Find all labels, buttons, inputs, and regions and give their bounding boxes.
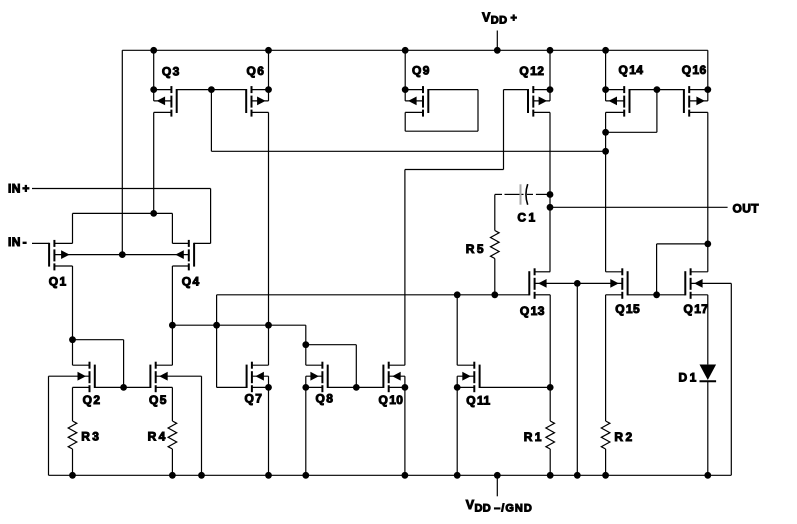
Q10 source lead (389, 386, 405, 388)
wire: Q5 drain riser (171, 325, 173, 365)
wire: Q2 diode tie horizontal (73, 339, 124, 341)
wire: Q12 drain drop from rail (549, 50, 551, 89)
node (405.2,89.6) (402, 86, 409, 93)
Q4 channel (188, 240, 190, 247)
Q14 gate bar (629, 89, 631, 113)
wire: IN+ drop to Q4 gate (210, 189, 212, 244)
Q15 source lead (606, 294, 623, 296)
wire: Q17 source drop to D1 (707, 295, 709, 365)
Q16 gate bar (683, 89, 685, 113)
node (268.5,387.4) (265, 384, 272, 391)
Q11 gate bar (479, 365, 481, 388)
Q2 gate lead (95, 386, 124, 388)
node (494.8,294.8) (491, 291, 498, 298)
Q12 gate bar (527, 89, 529, 113)
Q15 channel (621, 268, 623, 275)
Q6 gate bar (245, 89, 247, 113)
svg-text:Q7: Q7 (245, 391, 263, 405)
Q4 drain lead (172, 242, 188, 244)
Q1 drain lead (54, 242, 72, 244)
Q16 source lead (689, 111, 708, 113)
Q17 drain lead (691, 271, 708, 273)
Q16 channel (688, 86, 690, 93)
Q11 channel (473, 362, 475, 369)
node (457.2,294.8) (454, 291, 461, 298)
C1 plate-to-arc stub (522, 193, 524, 195)
node (305.8,387.4) (302, 384, 309, 391)
node (172.4,475.3) (169, 472, 176, 479)
transistor Q6 (P-channel MOSFET) (211, 86, 268, 117)
svg-text:Q4: Q4 (182, 275, 200, 289)
node (656.6,294.8) (653, 291, 660, 298)
transistor Q11 (N-channel MOSFET) (457, 362, 550, 393)
Q11 bulk lead (457, 375, 474, 377)
transistor Q4 (P-channel MOSFET) (172, 240, 210, 271)
wire: Q11 drain riser (456, 295, 458, 365)
Q9 substrate arrow (408, 97, 417, 106)
wire: Q12 gate drop (503, 90, 505, 170)
Q17 bulk lead (691, 282, 732, 284)
svg-text:Q17: Q17 (684, 302, 709, 316)
wire: Q15 source drop to R2 (605, 295, 607, 421)
node (268.5,325.2) (265, 322, 272, 329)
Q9 gate bar (427, 89, 429, 113)
wire: Q17 diode tie horizontal (657, 243, 708, 245)
node (707.8,475.3) (704, 472, 711, 479)
Q2 drain lead (73, 364, 90, 366)
Q1 source lead (54, 265, 72, 267)
Q10 bulk lead (389, 375, 405, 377)
wire: Q11 source to ground rail (456, 387, 458, 475)
Q9 channel (422, 86, 424, 93)
Q6 channel (251, 86, 253, 93)
wire: Q3 drain drop from rail (153, 50, 155, 89)
svg-text:R5: R5 (466, 242, 484, 256)
svg-text:R2: R2 (614, 430, 632, 444)
wire: Q13/Q15 shared bulk line (535, 282, 623, 284)
Q8 drain lead (306, 364, 323, 366)
wire: R2 bottom lead (605, 449, 607, 475)
Q1 gate lead (32, 242, 49, 244)
wire: Q7 source to ground rail (268, 387, 270, 475)
Q12 bulk lead + stub (533, 100, 550, 102)
svg-text:Q9: Q9 (412, 64, 430, 78)
wire: Q1 source drop (72, 266, 74, 340)
transistor Q9 (P-channel MOSFET) (405, 86, 478, 117)
node (497.3,475.3) (494, 472, 501, 479)
Q15 substrate arrow (610, 279, 619, 288)
node (123.6,387.4) (120, 384, 127, 391)
svg-text:Q14: Q14 (619, 63, 644, 77)
wire: VDD+ top rail (122, 49, 708, 51)
wire: Q14 source drop to Q15 drain (605, 112, 607, 271)
Q12 substrate arrow (539, 97, 548, 106)
wire: Q8 diode tie drop (355, 345, 357, 388)
wire: rail right end drop to Q16 (707, 50, 709, 89)
svg-text:Q3: Q3 (162, 64, 180, 78)
svg-text:R1: R1 (524, 430, 542, 444)
capacitor C1 (521, 184, 528, 205)
wire: Q7 gate drop (216, 325, 218, 387)
Q14 gate lead (630, 89, 657, 91)
Q10 gate lead (356, 386, 383, 388)
Q3 bulk lead + stub (154, 100, 172, 102)
Q4 substrate arrow (175, 250, 184, 259)
Q4 gate lead (194, 242, 211, 244)
wire: Q4 source drop (171, 266, 173, 325)
Q16 gate lead (657, 89, 684, 91)
Q1 substrate arrow (61, 250, 70, 259)
svg-text:Q1: Q1 (49, 275, 67, 289)
node (172.4,325.2) (169, 322, 176, 329)
node (201.5,475.3) (198, 472, 205, 479)
Q8 channel (321, 362, 323, 369)
wire: R5 bottom lead (494, 259, 496, 295)
transistor Q5 (N-channel MOSFET) (124, 362, 202, 393)
Q2 channel (89, 362, 91, 369)
wire: Q10 source to ground rail (404, 387, 406, 475)
Q13 source lead (535, 294, 551, 296)
Q14 drain lead (606, 89, 625, 91)
C1 flat plate (gray) (520, 184, 522, 204)
Q8 bulk lead (306, 375, 323, 377)
wire: Q12 source drop to Q13 drain (549, 112, 551, 271)
wire: C1 left lead (segment 2) (505, 193, 520, 195)
transistor Q12 (P-channel MOSFET) (504, 86, 551, 117)
Q17 gate lead (657, 294, 686, 296)
Q13 gate bar (528, 271, 530, 295)
Q14 source lead (606, 111, 625, 113)
Q6 source lead (252, 111, 269, 113)
Q3 gate bar (176, 89, 178, 113)
svg-text:Q2: Q2 (83, 393, 101, 407)
wire: Q15/Q17 gate riser (656, 244, 658, 295)
wire: Q9 diode loop left side (404, 112, 406, 131)
wire: node A horizontal (first stage out) (172, 324, 305, 326)
Q17 source lead (691, 294, 708, 296)
wire: compensation net horizontal (217, 294, 530, 296)
wire: node A down to Q8 drain (305, 325, 307, 345)
Q5 source lead (156, 386, 173, 388)
wire: R4 bottom lead (171, 449, 173, 475)
Q17 substrate arrow (694, 279, 703, 288)
Q3 channel (170, 86, 172, 93)
node (356.3,387.4) (353, 384, 360, 391)
Q6 gate lead (211, 89, 246, 91)
wire: Q9 drain drop from rail (404, 50, 406, 89)
svg-text:Q12: Q12 (519, 64, 544, 78)
Q6 drain lead (252, 89, 269, 91)
node (305.8,475.3) (302, 472, 309, 479)
svg-text:Q6: Q6 (247, 64, 265, 78)
Q3 drain lead (154, 89, 172, 91)
wire: R1 bottom lead (549, 449, 551, 475)
Q5 gate lead (124, 386, 151, 388)
Q3 substrate arrow (157, 97, 166, 106)
svg-text:Q13: Q13 (520, 304, 545, 318)
wire: Q6 source drop to node A (268, 112, 270, 325)
node (707.8,243.9) (704, 241, 711, 248)
Q4 gate bar (193, 243, 195, 267)
transistor Q14 (P-channel MOSFET) (606, 86, 657, 117)
wire: diff-pair drain tie top (73, 212, 173, 214)
svg-text:Q15: Q15 (615, 302, 640, 316)
node (457.2,475.3) (454, 472, 461, 479)
C1 curved plate (526, 184, 528, 205)
transistor Q1 (P-channel MOSFET) (32, 240, 73, 271)
transistor Q10 (N-channel MOSFET) (356, 362, 405, 393)
node (153.7,50.3) (150, 47, 157, 54)
Q10 substrate arrow (392, 372, 401, 381)
Q12 channel (532, 86, 534, 93)
wire: Q13 source drop to R1 (549, 295, 551, 421)
resistor R1 (546, 421, 555, 449)
Q12 gate lead (504, 89, 529, 91)
resistor R5 (491, 231, 500, 259)
wire: C1 right lead (segment) (527, 193, 533, 195)
node (497.3,50.3) (494, 47, 501, 54)
node (305.8,344.7) (302, 341, 309, 348)
svg-text:Q11: Q11 (466, 394, 490, 408)
Q8 source lead (306, 386, 323, 388)
Q15 drain lead (606, 271, 623, 273)
node (656.9,89.6) (654, 86, 661, 93)
node (605.6,151.3) (602, 148, 609, 155)
Q3 gate lead (177, 89, 212, 91)
svg-text:Q5: Q5 (149, 393, 167, 407)
resistor R4 (168, 421, 177, 449)
wire: D1 cathode to ground rail (707, 381, 709, 475)
node (72.5,475.3) (69, 472, 76, 479)
Q11 substrate arrow (462, 372, 471, 381)
wire: Q8 drain drop (305, 345, 307, 366)
node (457.2,387.4) (454, 384, 461, 391)
Q7 gate lead (217, 386, 247, 388)
node (405.2,50.3) (402, 47, 409, 54)
wire: Q3 source drop to diff-pair node (153, 112, 155, 213)
transistor Q17 (N-channel MOSFET) (657, 268, 732, 299)
svg-text:VDD+: VDD+ (482, 10, 517, 26)
Q7 source lead (252, 386, 269, 388)
wire: Q13/Q15 bulk drop to ground (576, 283, 578, 475)
Q17 channel (690, 268, 692, 275)
Q1 channel (53, 240, 55, 247)
Q2 gate bar (94, 365, 96, 388)
wire: node A riser to R5/Q13 net (216, 295, 218, 325)
transistor Q2 (N-channel MOSFET) (49, 362, 124, 393)
node (550,194.5) (547, 191, 554, 198)
wire: Q10 drain riser (404, 170, 406, 366)
Q7 gate bar (246, 365, 248, 388)
transistor Q8 (N-channel MOSFET) (306, 362, 357, 393)
wire: Q14/Q16 gate node down (656, 90, 658, 133)
node (605.6,132.3) (602, 129, 609, 136)
Q9 drain lead (405, 89, 423, 91)
wire: Q2 bulk drop to ground rail (48, 376, 50, 475)
Q16 drain lead (689, 89, 708, 91)
node (707.8,89.6) (704, 86, 711, 93)
wire: OUT line (550, 206, 728, 208)
Q10 channel (388, 362, 390, 369)
Q14 substrate arrow (609, 97, 618, 106)
Q6 substrate arrow (257, 97, 266, 106)
svg-text:OUT: OUT (733, 201, 760, 215)
wire: Q1/Q4 shared bulk line (54, 254, 188, 256)
Q16 substrate arrow (696, 97, 705, 106)
transistor Q13 (N-channel MOSFET) (529, 268, 550, 299)
wire: Q14 drain drop from rail (605, 50, 607, 89)
wire: Q4 drain riser (171, 213, 173, 243)
Q5 substrate arrow (159, 372, 168, 381)
node (404.9,387.4) (402, 384, 409, 391)
transistor Q3 (P-channel MOSFET) (154, 86, 212, 117)
transistor Q7 (N-channel MOSFET) (217, 362, 269, 393)
node (577.3,475.3) (574, 472, 581, 479)
wire: Q17 bulk drop to ground rail (730, 283, 732, 475)
svg-text:VDD–/GND: VDD–/GND (466, 498, 533, 514)
Q11 drain lead (457, 364, 474, 366)
node (268.5,89.6) (265, 86, 272, 93)
Q8 gate lead (328, 386, 357, 388)
wire: C1 right lead (segment 2) (536, 193, 550, 195)
node (216.6,325.2) (213, 322, 220, 329)
wire: IN+ lead (32, 188, 211, 190)
wire: Q1 drain riser (72, 213, 74, 243)
svg-text:Q10: Q10 (379, 393, 404, 407)
svg-text:D1: D1 (679, 371, 697, 385)
wire: Q8 source to ground rail (305, 387, 307, 475)
Q11 source lead (457, 386, 474, 388)
svg-text:Q8: Q8 (316, 391, 334, 405)
resistor R3 (68, 421, 77, 449)
wire: Q16 source drop to Q17 drain (707, 112, 709, 271)
Q15 gate bar (627, 271, 629, 295)
node (72.5,339.7) (69, 336, 76, 343)
node (550,89.6) (547, 86, 554, 93)
wire: Q7 drain drop (268, 325, 270, 365)
Q7 channel (251, 362, 253, 369)
wire: C1 left lead (segment) (495, 193, 502, 195)
svg-text:Q16: Q16 (682, 63, 707, 77)
Q15 gate lead (628, 294, 657, 296)
Q13 channel (534, 268, 536, 275)
node (211.4,89.6) (208, 86, 215, 93)
Q14 channel (623, 86, 625, 93)
node (605.6,89.6) (602, 86, 609, 93)
Q7 drain lead (252, 364, 269, 366)
Q2 bulk lead (49, 375, 90, 377)
wire: Q5 bulk drop to ground rail (201, 376, 203, 475)
Q13 substrate arrow (538, 279, 547, 288)
Q2 substrate arrow (78, 372, 87, 381)
svg-text:IN-: IN- (8, 235, 27, 249)
svg-text:R4: R4 (148, 430, 166, 444)
svg-text:IN+: IN+ (8, 182, 30, 196)
Q9 gate lead (428, 89, 478, 91)
transistor Q16 (P-channel MOSFET) (657, 86, 708, 117)
Q2 source lead (73, 386, 90, 388)
wire: left rail drop to input-pair bulk (121, 50, 123, 254)
node (577.3,283.4) (574, 280, 581, 287)
node (550.2,387.4) (547, 384, 554, 391)
Q7 substrate arrow (255, 372, 264, 381)
wire: Q3/Q6 gate node down (210, 90, 212, 152)
node (550,207.3) (547, 204, 554, 211)
wire: Q2 diode tie drop to gate (123, 340, 125, 388)
Q10 gate bar (382, 365, 384, 388)
Q16 bulk lead + stub (689, 100, 708, 102)
node (404.9,475.3) (402, 472, 409, 479)
diode D1 (700, 365, 717, 382)
wire: Q2 source drop to R3 (72, 387, 74, 421)
Q10 drain lead (389, 364, 405, 366)
svg-text:C1: C1 (517, 210, 535, 224)
Q9 source lead (405, 111, 423, 113)
node (268.5,475.3) (265, 472, 272, 479)
Q7 bulk lead (252, 375, 269, 377)
Q3 source lead (154, 111, 172, 113)
svg-text:R3: R3 (81, 430, 99, 444)
wire: Q12 gate to Q10 drain horizontal (405, 169, 504, 171)
wire: Q6 drain drop from rail (268, 50, 270, 89)
wire: Q3/Q6 gate to Q15 drain net (211, 150, 605, 152)
wire: Q9 diode loop bottom (405, 130, 478, 132)
node (605.6,50.3) (602, 47, 609, 54)
Q4 source lead (172, 265, 188, 267)
Q1 gate bar (48, 243, 50, 267)
Q8 gate bar (327, 365, 329, 388)
node (605.6,475.3) (602, 472, 609, 479)
Q5 gate bar (149, 365, 151, 388)
transistor Q15 (N-channel MOSFET) (606, 268, 657, 299)
Q12 source lead (533, 111, 550, 113)
Q6 bulk lead + stub (252, 100, 269, 102)
wire: R3 bottom lead (72, 449, 74, 475)
Q8 substrate arrow (310, 372, 319, 381)
VDD+ supply lead (496, 31, 498, 51)
wire: Q14/Q16 gate tie to Q14 source (606, 131, 657, 133)
wire: Q8 diode tie horizontal (306, 344, 357, 346)
Q12 drain lead (533, 89, 550, 91)
Q14 bulk lead + stub (606, 100, 625, 102)
node (153.7,213.4) (150, 210, 157, 217)
node (153.7,89.6) (150, 86, 157, 93)
wire: Q5 source drop to R4 (171, 387, 173, 421)
Q17 gate bar (684, 271, 686, 295)
node (122.3,254.6) (119, 251, 126, 258)
Q5 bulk lead (156, 375, 202, 377)
Q11 gate lead (480, 386, 551, 388)
wire: Q9 diode loop right side (477, 90, 479, 132)
wire: VDD-/GND bottom rail (49, 474, 732, 476)
node (268.5,50.3) (265, 47, 272, 54)
node (550.2,475.3) (547, 472, 554, 479)
wire: R5 top lead (494, 195, 496, 231)
resistor R2 (601, 421, 610, 449)
Q13 drain lead (535, 271, 551, 273)
wire: VDD-/GND lead (496, 475, 498, 496)
Q5 channel (155, 362, 157, 369)
node (550,50.3) (547, 47, 554, 54)
wire: Q2 drain riser (72, 340, 74, 366)
Q9 bulk lead + stub (405, 100, 423, 102)
Q5 drain lead (156, 364, 173, 366)
